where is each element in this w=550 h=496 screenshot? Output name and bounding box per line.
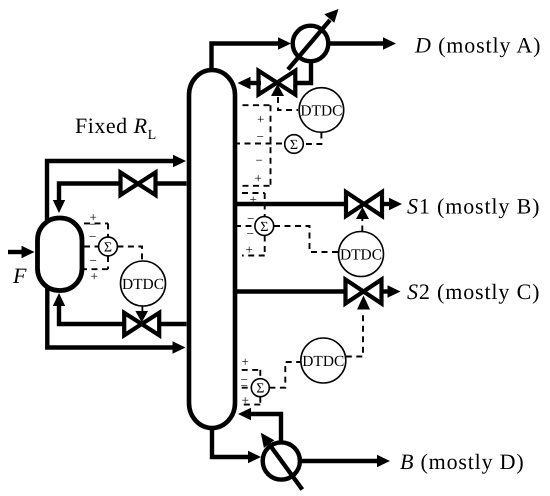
valve V2 lower left — [124, 313, 159, 336]
wire: D product line — [328, 41, 384, 45]
svg-text:+: + — [250, 192, 257, 207]
sum3 circle — [99, 237, 118, 256]
group2: sum2 output to DTDC2 — [274, 226, 339, 252]
signal arrow into reflux valve — [271, 84, 284, 96]
svg-text:S1 (mostly B): S1 (mostly B) — [407, 194, 540, 219]
svg-text:+: + — [242, 354, 249, 369]
svg-text:DTDC: DTDC — [122, 276, 164, 293]
wire: vessel bottom to column lower feed — [47, 287, 177, 348]
signal dashed: reflux valve to DTDC top — [278, 97, 298, 110]
group2: tap above S1 — [242, 193, 265, 217]
svg-text:+: + — [91, 269, 98, 284]
svg-text:Σ: Σ — [260, 220, 268, 235]
group4: sum3 output to DTDC3 — [117, 247, 142, 261]
signal arrow into S1 valve — [356, 207, 369, 219]
wire: reflux into column — [249, 81, 261, 85]
signal: DTDC3 to valve V2 — [141, 306, 143, 312]
group3: sum4 output to DTDC4 — [269, 362, 301, 388]
svg-text:Σ: Σ — [104, 241, 112, 256]
main column C1 — [189, 70, 235, 428]
group2: DTDC2 top to S1 valve — [361, 219, 363, 232]
signal dashed: group1 tap upper — [243, 104, 271, 106]
group2: sum2 input from column — [235, 225, 255, 227]
svg-text:DTDC: DTDC — [340, 247, 382, 264]
sum2 circle — [255, 217, 274, 236]
wire: RL valve line left segment down to vessel — [59, 184, 120, 204]
svg-text:B (mostly D): B (mostly D) — [400, 449, 525, 474]
wire: RL valve line right segment — [157, 181, 187, 185]
svg-text:Σ: Σ — [290, 138, 298, 153]
DTDC U1 top — [299, 88, 344, 133]
svg-text:−: − — [241, 378, 248, 393]
wire: S2 line — [237, 289, 346, 293]
wire: column bottoms to reboiler — [212, 428, 252, 457]
svg-text:S2 (mostly C): S2 (mostly C) — [407, 279, 540, 304]
wire: vapor line column to valve — [161, 322, 187, 326]
signal dashed: DTDC1 bottom to sum1 — [304, 133, 322, 145]
svg-text:+: + — [257, 112, 264, 127]
condenser circle — [293, 26, 329, 62]
DTDC U3 left — [121, 261, 166, 306]
reboiler circle — [263, 442, 300, 479]
svg-text:−: − — [89, 229, 96, 244]
valve RL — [121, 173, 156, 196]
svg-text:DTDC: DTDC — [300, 103, 342, 120]
wire: condenser to reflux valve — [295, 60, 311, 83]
svg-text:−: − — [256, 153, 263, 168]
svg-text:+: + — [246, 242, 253, 257]
condenser duty arrow — [288, 20, 330, 70]
group4: tap lower — [84, 256, 108, 269]
signal dashed: group1 tap lower — [243, 185, 271, 187]
group4: sum3 input — [84, 246, 99, 248]
group3: DTDC4 to S2 valve — [346, 315, 363, 357]
reboiler duty arrow — [268, 443, 302, 490]
svg-text:D (mostly A): D (mostly A) — [414, 33, 541, 58]
wire: B product line — [300, 459, 377, 463]
valve S1 — [346, 192, 382, 216]
wire: column top to condenser — [212, 44, 286, 70]
DTDC U4 bottom — [301, 338, 346, 383]
group4 (left): tap upper — [84, 223, 108, 237]
feed arrow F — [8, 250, 24, 254]
svg-text:+: + — [242, 393, 249, 408]
svg-text:−: − — [257, 129, 264, 144]
signal dashed: group1 vertical connector — [270, 105, 272, 186]
svg-text:−: − — [90, 253, 97, 268]
group3: tap lower — [242, 397, 261, 405]
valve reflux — [259, 71, 296, 95]
svg-text:Σ: Σ — [256, 382, 264, 397]
signal dashed: sum1 input from column — [234, 143, 285, 145]
svg-text:−: − — [247, 211, 254, 226]
wire: S1 line — [237, 202, 346, 206]
signal arrow into S2 valve — [357, 296, 370, 310]
wire: boilup return to column — [247, 414, 281, 443]
valve S2 — [346, 280, 382, 304]
sum1 circle — [285, 135, 304, 154]
group2: below sum2 tap — [242, 236, 265, 256]
svg-text:−: − — [247, 226, 254, 241]
svg-text:F: F — [12, 263, 27, 288]
sum4 circle — [251, 379, 269, 397]
group3: tap upper — [242, 370, 263, 379]
group3: sum4 input — [242, 387, 252, 389]
svg-text:DTDC: DTDC — [302, 353, 344, 370]
DTDC U2 middle — [339, 232, 384, 277]
svg-text:+: + — [255, 171, 262, 186]
prefractionator vessel — [38, 218, 83, 291]
wire: vapor line valve to vessel bottom — [59, 303, 124, 324]
wire: RL top line to column — [47, 161, 178, 220]
